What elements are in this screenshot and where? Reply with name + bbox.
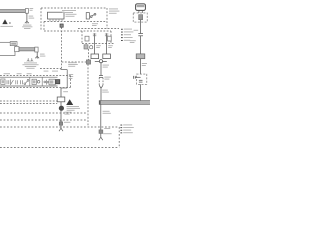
bus bar B1 (battery feed, top-left) [0,10,27,13]
output pad D1 [56,80,60,84]
wire label [29,16,35,19]
label under S1 [92,23,98,26]
label right [102,90,109,93]
terminal box at end of B1 [25,9,28,14]
dashed enclosure U1 (junction unit, top-middle) [41,8,119,44]
wire from B3 [36,52,38,56]
twin dashed wires [99,78,103,86]
K1 pins [50,19,62,21]
dashed option line row 3 [0,126,119,128]
switch S1 inside U1 [86,13,96,19]
junction J1 (gray pad) [60,24,63,27]
switch contact S2 [11,79,14,85]
relay cluster above J2 [84,45,88,49]
bus bar B2 (ground strap, right) [99,101,151,105]
dashed wire up from J2 [88,49,90,60]
node circle [99,60,102,63]
fuse cell F2 [32,79,36,84]
pin marks [7,80,9,84]
terminal box at B3 start [15,47,19,52]
left junction box BB [0,42,15,55]
fork merge [99,85,103,88]
branch to left connector [135,76,140,78]
wire down [100,63,102,76]
label right of U1 corner [109,8,119,13]
dashed wire across to J2 [62,61,87,63]
M1 link wire [95,61,107,63]
connector label box on BB [10,42,17,46]
label right [104,77,110,80]
connector C2 in box E [139,15,143,20]
connector ticks on M1 wires [93,34,108,36]
legend bottom-right [120,124,133,133]
terminal box at B3 end [35,47,38,52]
H1 legs [139,10,142,13]
cell divider [41,77,43,86]
fuse cell F1 [1,79,5,84]
dashed option line row 4 (bottom) [0,147,119,149]
inline connector C6 [60,120,63,122]
connector fork CN2 [35,56,39,59]
switch contact S3 [24,80,29,85]
labels right of switch unit notch [68,62,78,79]
label right [63,91,68,92]
label block above switch unit [22,62,38,68]
junction box F [136,54,145,59]
fork end [99,137,103,140]
label right of wire [142,63,147,66]
dashed box E (horn connector) [133,13,147,22]
inline connector C5 [99,130,103,134]
horn H1 (top-right) [136,4,146,11]
label right of C6 [64,122,70,123]
bracket marks [20,80,22,84]
labels right of C5 [103,128,111,134]
contact mark extra [16,80,18,84]
dashed wire from J1 down [61,27,63,68]
wire W1 (drop from B1) [26,13,28,21]
warning triangle A2 [66,99,73,105]
label right of wire [103,111,111,114]
fuse cell F3 [49,79,55,85]
labels right of N1 [64,106,80,115]
junction ticks inside G [139,80,143,82]
wire to bus bar B2 [100,88,102,100]
pin box P2 [108,36,112,41]
label right of CN2 [40,54,45,57]
label under CN1 [22,25,32,29]
contact circle [37,81,40,84]
inline connector C3 [138,34,143,36]
labels on M1 wires [96,45,113,48]
connector block K1 inside U1 [48,12,65,19]
twin dashed feed pair [0,101,57,103]
contact circle [90,46,93,49]
wire [140,59,142,74]
warning triangle A1 [2,19,7,24]
inline connector ticks [99,76,103,78]
twin fork icon above switch unit [27,58,33,62]
switch contact S4 [44,80,47,85]
wire to bus bar B2 [140,84,142,100]
label right [103,65,109,68]
dashed option line row 1 [0,112,88,114]
labels above strip cells [4,71,58,75]
label left of wire [134,30,139,31]
wire below box [60,102,62,129]
label right of terminal [30,8,34,11]
label rows top of U1 [62,10,76,13]
label right of K1 [66,14,77,17]
contact dot extra [47,81,49,83]
legend top-right [121,29,133,41]
connector ticks [134,76,136,79]
label under triangle A1 [0,26,13,27]
dashed box G (pass-through connector) [137,74,147,84]
splice dot N1 [59,106,64,111]
cell divider [29,77,31,86]
dashed enclosure around switch unit [0,69,71,88]
label left [130,40,136,43]
wire down from C2 [140,20,142,34]
bus bar B3 (mid-left) [19,48,35,51]
fork end [59,128,63,131]
B2 end cap [99,101,100,105]
switch unit strip outline [0,70,67,88]
wire [140,36,142,54]
callout mark next to triangle A1 [9,22,10,24]
dashed wire down from J2 [87,64,89,127]
dashed box right edge [118,127,120,148]
wire from strip down [60,88,62,97]
dashed option line row 2 [0,119,88,121]
M1 terminal boxes [91,54,99,59]
connector fork CN1 [25,21,29,24]
wire below B2 [100,104,102,137]
clock/load M1 wires (two-pin component) [95,33,107,54]
junction box J2 [86,60,90,64]
pin box P1 [85,36,89,41]
junction box W1b [57,97,65,102]
